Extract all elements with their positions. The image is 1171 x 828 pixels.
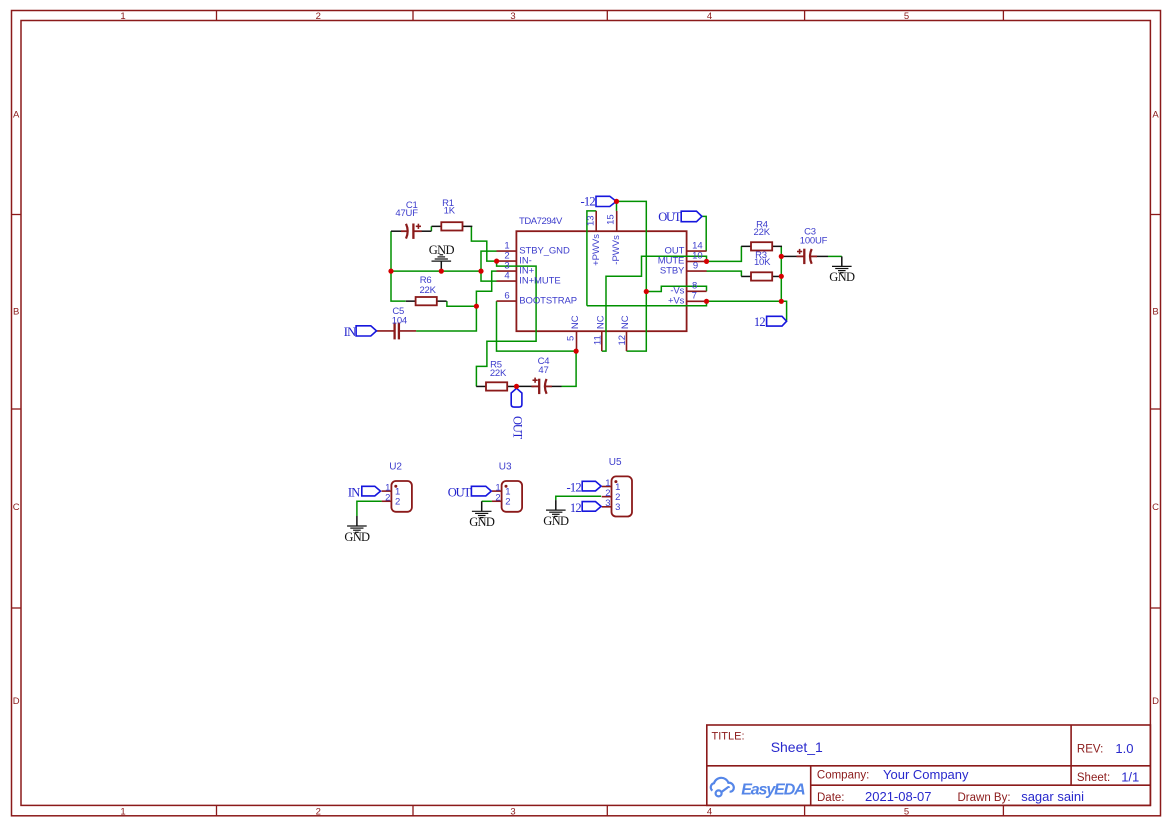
svg-text:D: D <box>1152 696 1159 707</box>
svg-text:sagar saini: sagar saini <box>1021 789 1084 804</box>
wire -12 net vertical <box>617 201 647 351</box>
svg-text:3: 3 <box>605 498 610 509</box>
svg-text:1: 1 <box>120 11 125 22</box>
wire pin9 to R3 <box>707 271 742 276</box>
svg-text:U2: U2 <box>389 462 402 473</box>
net flag -12 (top) <box>581 195 617 209</box>
connector U5 <box>602 476 632 516</box>
pin 10 MUTE <box>658 251 707 267</box>
svg-text:13: 13 <box>585 215 596 226</box>
junction (646.3,291.5) <box>644 289 649 294</box>
wire pin14 to OUT flag <box>702 216 706 251</box>
svg-text:2: 2 <box>505 497 510 508</box>
svg-text:1: 1 <box>120 807 125 818</box>
svg-text:2: 2 <box>495 493 500 504</box>
wire MUTE to R4 <box>707 246 742 261</box>
svg-text:22K: 22K <box>419 285 436 296</box>
junction (781.3,301.3) <box>779 299 784 304</box>
wire 12 node to flag <box>781 301 786 320</box>
svg-text:11: 11 <box>592 335 603 345</box>
svg-text:Date:: Date: <box>817 792 845 804</box>
capacitor C4 black stubs <box>517 385 535 387</box>
svg-text:Company:: Company: <box>817 769 869 781</box>
junction (781.3,276.3) <box>779 274 784 279</box>
svg-text:47: 47 <box>538 365 548 376</box>
svg-text:A: A <box>1152 110 1159 121</box>
junction (706.5,301.3) <box>704 299 709 304</box>
svg-text:IN: IN <box>344 325 356 339</box>
svg-text:-12: -12 <box>567 481 582 495</box>
svg-text:EasyEDA: EasyEDA <box>741 781 805 798</box>
svg-text:C: C <box>1152 502 1159 513</box>
op-amp IC U1 TDA7294V body <box>516 231 686 331</box>
junction (441.3,271.1) <box>439 269 444 274</box>
EasyEDA logo <box>711 778 805 798</box>
wire R6 right to node B <box>447 301 477 306</box>
svg-text:3: 3 <box>510 807 515 818</box>
pin 7 +Vs <box>668 291 707 307</box>
connector U2 <box>382 481 412 512</box>
svg-text:4: 4 <box>504 271 509 282</box>
pin 9 STBY <box>660 260 707 276</box>
svg-text:4: 4 <box>707 807 712 818</box>
pin 8 -Vs <box>670 281 706 297</box>
junction (616.5,201.4) <box>614 199 619 204</box>
net flag 12 (U5) <box>570 501 601 515</box>
connector U3 <box>492 481 522 512</box>
wire -Vs jog <box>646 286 706 291</box>
wire pin3 to node B <box>476 271 496 306</box>
resistor R1 <box>432 222 473 230</box>
junction (481,271.1) <box>478 269 483 274</box>
wire +PWVs rail to pin7 <box>587 301 707 306</box>
resistor R3 <box>741 272 782 280</box>
net flag IN (U2) <box>348 486 381 500</box>
wire node B to C5 <box>416 306 476 331</box>
svg-text:12: 12 <box>617 335 628 346</box>
svg-text:22K: 22K <box>754 227 771 238</box>
pin 2 IN- <box>497 251 532 267</box>
svg-text:2: 2 <box>395 497 400 508</box>
pin 6 BOOTSTRAP <box>497 291 578 307</box>
capacitor C3 black stubs <box>781 255 796 257</box>
svg-text:GND: GND <box>829 270 855 284</box>
resistor R5 <box>476 382 517 390</box>
wire R1 right to IN- node <box>471 226 496 261</box>
junction (576.1,351.1) <box>574 349 579 354</box>
svg-text:BOOTSTRAP: BOOTSTRAP <box>519 295 577 306</box>
wire U3 pin2 to ground <box>482 500 492 502</box>
svg-text:IN: IN <box>348 486 360 500</box>
wire pin5 node to C4 <box>562 351 577 386</box>
svg-text:5: 5 <box>566 336 577 341</box>
svg-text:A: A <box>13 110 20 121</box>
svg-text:GND: GND <box>543 514 569 528</box>
svg-text:NC: NC <box>570 315 581 329</box>
svg-text:B: B <box>1152 307 1158 318</box>
wire node A to R6 left <box>391 271 406 301</box>
svg-text:3: 3 <box>510 11 515 22</box>
pin 4 IN+MUTE <box>497 271 561 287</box>
junction (391,271.1) <box>388 269 393 274</box>
pin 13 +PWVs <box>585 211 602 266</box>
pin 14 OUT <box>665 240 707 256</box>
wire C3 to ground <box>828 255 842 257</box>
pin 12 NC <box>617 315 631 351</box>
svg-text:GND: GND <box>344 530 370 544</box>
wire U5 pin2 to ground <box>556 496 601 500</box>
svg-text:REV:: REV: <box>1077 744 1103 756</box>
svg-text:104: 104 <box>392 316 407 327</box>
svg-text:NC: NC <box>620 315 631 329</box>
svg-text:Drawn By:: Drawn By: <box>958 792 1011 804</box>
svg-text:47UF: 47UF <box>395 208 418 219</box>
svg-text:2021-08-07: 2021-08-07 <box>865 789 932 804</box>
junction (496.6,261.1) <box>494 259 499 264</box>
svg-text:U3: U3 <box>499 462 512 473</box>
wire pin7 to 12 node <box>707 300 782 302</box>
svg-text:5: 5 <box>904 807 909 818</box>
svg-text:15: 15 <box>605 214 616 225</box>
svg-text:+Vs: +Vs <box>668 296 685 307</box>
wire R4 R3 C3 vertical <box>780 246 782 301</box>
net flag 12 (right) <box>754 315 787 329</box>
svg-text:Sheet:: Sheet: <box>1077 772 1110 784</box>
pin 3 IN+ <box>497 261 535 277</box>
ground (right of C3) <box>829 256 855 284</box>
svg-text:Sheet_1: Sheet_1 <box>771 739 823 755</box>
wire C1 right elbow <box>430 226 432 231</box>
svg-text:2: 2 <box>316 11 321 22</box>
svg-text:D: D <box>13 696 20 707</box>
svg-text:1/1: 1/1 <box>1121 769 1139 784</box>
title block <box>707 725 1151 805</box>
capacitor C3 <box>797 249 818 264</box>
svg-text:B: B <box>13 307 19 318</box>
pin 5 NC <box>566 315 582 351</box>
svg-text:IN+MUTE: IN+MUTE <box>519 275 560 286</box>
pin 15 -PWVs <box>605 211 622 265</box>
svg-text:OUT: OUT <box>448 486 472 500</box>
svg-text:2: 2 <box>385 493 390 504</box>
wire IN- feedback to R5 <box>476 261 536 386</box>
svg-text:-PWVs: -PWVs <box>611 235 622 265</box>
wire U2 pin2 to ground <box>357 501 382 516</box>
net flag IN (left) <box>344 325 377 339</box>
svg-text:5: 5 <box>904 11 909 22</box>
svg-text:GND: GND <box>469 515 495 529</box>
svg-text:C: C <box>13 502 20 513</box>
ground (U3) <box>469 501 495 529</box>
svg-text:OUT: OUT <box>510 416 524 440</box>
wire MUTE to pin11 <box>602 256 707 351</box>
junction (706.5,261.4) <box>704 259 709 264</box>
port OUT (bottom, rotated) <box>510 388 524 439</box>
svg-text:-12: -12 <box>581 195 596 209</box>
svg-text:9: 9 <box>693 260 698 271</box>
capacitor C5 <box>377 323 417 340</box>
wire C1 left to node A <box>390 231 392 271</box>
wire pin1 to node A to pin4 <box>481 251 497 281</box>
wire node A horizontal <box>391 270 481 272</box>
capacitor C1 black stubs <box>391 230 402 232</box>
svg-text:OUT: OUT <box>658 210 682 224</box>
wire pin6 to pin5 node <box>497 301 577 351</box>
svg-text:Your Company: Your Company <box>883 767 969 782</box>
svg-text:6: 6 <box>504 291 509 302</box>
resistor R4 <box>741 242 782 250</box>
pin 11 NC <box>592 315 606 351</box>
svg-text:22K: 22K <box>490 368 507 379</box>
svg-text:3: 3 <box>615 502 620 513</box>
resistor R6 <box>406 297 447 305</box>
ground (inverted, node A) <box>429 243 455 271</box>
net flag OUT (top) <box>658 210 702 224</box>
wire pin13 to +PWVs rail <box>587 211 596 306</box>
pin 1 STBY_GND <box>497 241 570 257</box>
svg-text:1.0: 1.0 <box>1115 741 1133 756</box>
ground (U2) <box>344 516 370 544</box>
capacitor C4 <box>531 378 552 395</box>
svg-text:TDA7294V: TDA7294V <box>519 216 563 227</box>
svg-text:+PWVs: +PWVs <box>591 234 602 266</box>
svg-text:U5: U5 <box>609 457 622 468</box>
ground (U5) <box>543 500 569 528</box>
wire -12 flag to pin15 <box>616 201 618 211</box>
junction (781.3,256.4) <box>779 254 784 259</box>
svg-text:7: 7 <box>692 291 697 302</box>
svg-text:STBY: STBY <box>660 265 685 276</box>
svg-text:10K: 10K <box>754 257 771 268</box>
junction (476.4,306.2) <box>474 304 479 309</box>
net flag -12 (U5) <box>567 481 602 495</box>
svg-text:2: 2 <box>316 807 321 818</box>
svg-text:4: 4 <box>707 11 712 22</box>
capacitor C1 <box>401 224 422 239</box>
net flag OUT (U3) <box>448 486 491 500</box>
svg-text:TITLE:: TITLE: <box>712 731 745 743</box>
svg-text:12: 12 <box>570 501 581 515</box>
svg-text:NC: NC <box>595 315 606 329</box>
svg-text:100UF: 100UF <box>800 236 828 247</box>
svg-text:12: 12 <box>754 315 765 329</box>
svg-text:1K: 1K <box>444 206 456 217</box>
svg-text:GND: GND <box>429 243 455 257</box>
junction (516.5,386.4) <box>514 384 519 389</box>
